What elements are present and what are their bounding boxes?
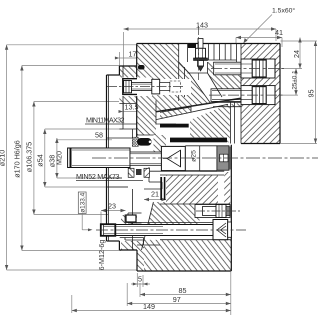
svg-text:5: 5	[138, 275, 142, 284]
svg-text:25±0.1: 25±0.1	[292, 70, 299, 90]
svg-text:MIN11MAX32: MIN11MAX32	[86, 116, 125, 125]
svg-text:ø25: ø25	[191, 150, 198, 162]
svg-text:6-M12-6g: 6-M12-6g	[97, 240, 106, 271]
svg-text:ø106.375: ø106.375	[25, 142, 34, 172]
svg-text:21: 21	[151, 190, 159, 199]
svg-text:23: 23	[108, 202, 116, 211]
svg-text:13.5: 13.5	[125, 103, 139, 112]
svg-text:97: 97	[173, 295, 181, 304]
svg-text:143: 143	[196, 21, 208, 30]
svg-text:17: 17	[129, 50, 137, 59]
svg-text:85: 85	[179, 286, 187, 295]
svg-text:ø210: ø210	[0, 150, 7, 166]
svg-text:1.5x60°: 1.5x60°	[272, 7, 295, 15]
svg-text:M20: M20	[55, 151, 64, 165]
svg-text:MIN52 MAX73: MIN52 MAX73	[76, 172, 120, 181]
svg-text:ø170 H6/g6: ø170 H6/g6	[13, 140, 22, 178]
svg-text:149: 149	[143, 302, 155, 311]
svg-text:41: 41	[275, 28, 283, 37]
svg-text:ø133.4: ø133.4	[79, 192, 86, 212]
svg-text:95: 95	[307, 90, 316, 98]
svg-text:24: 24	[292, 50, 301, 58]
svg-text:58: 58	[95, 131, 103, 140]
svg-text:ø54: ø54	[36, 154, 45, 166]
